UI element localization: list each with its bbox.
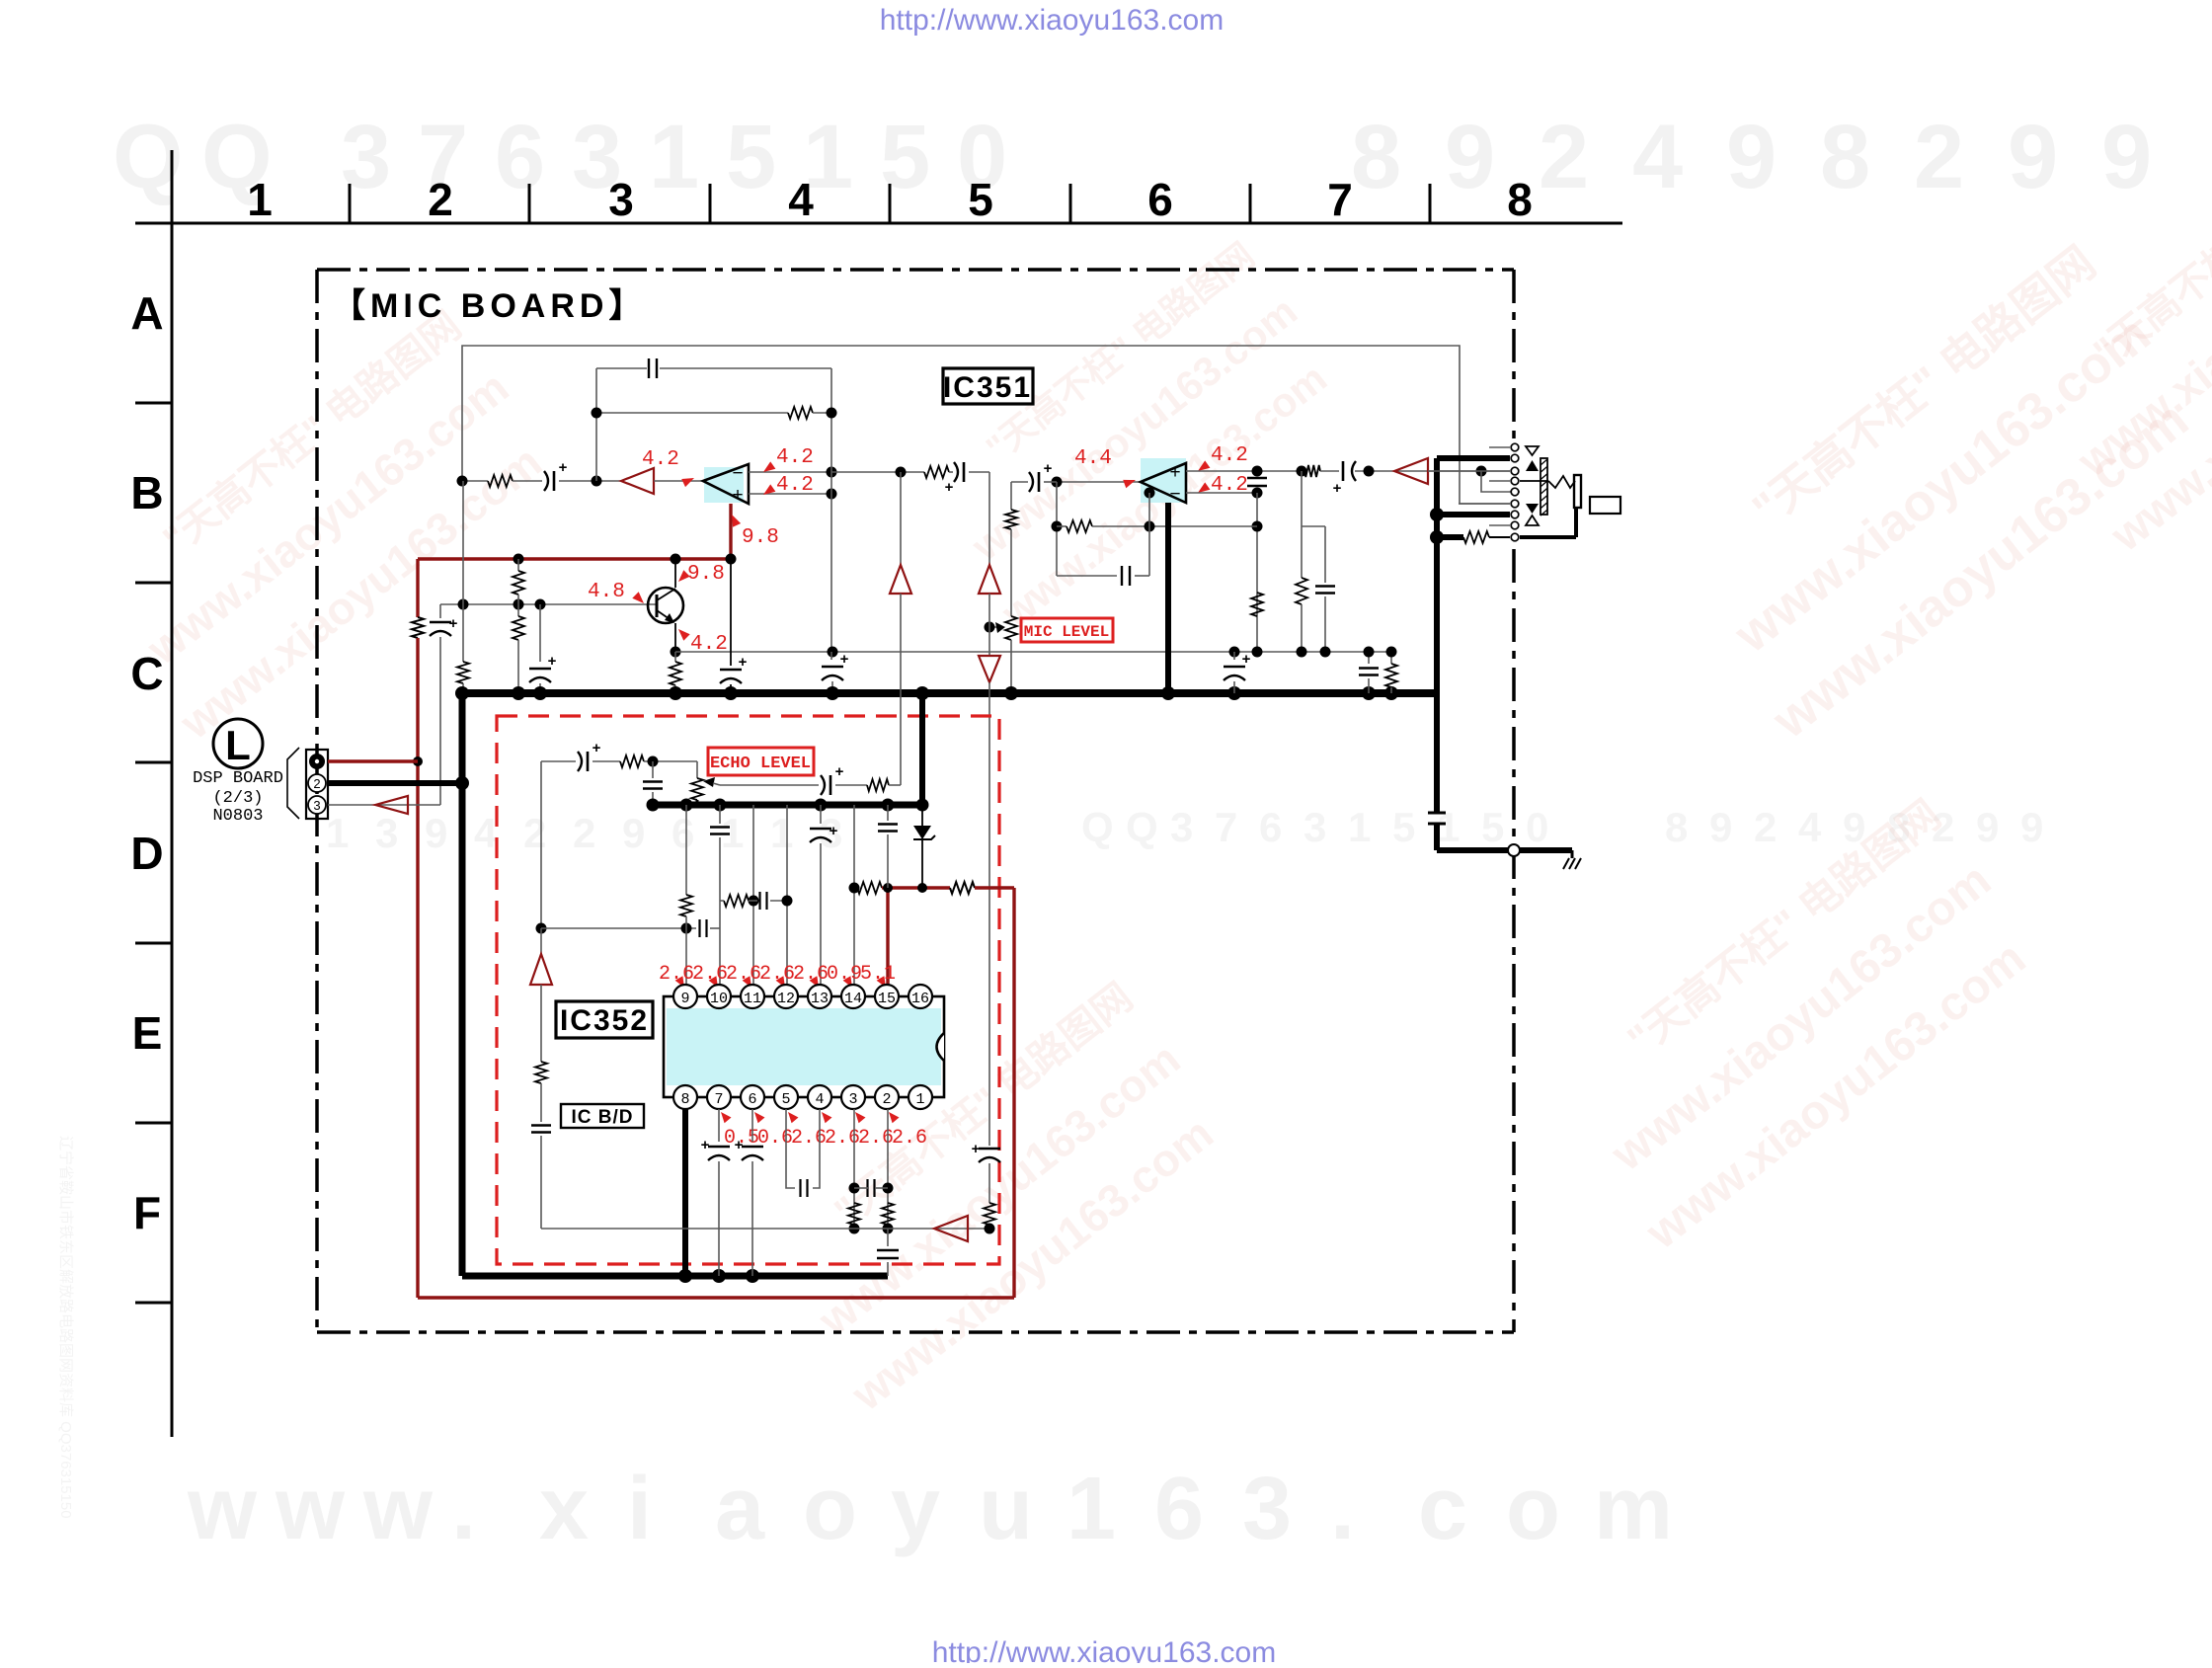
- svg-text:A: A: [130, 287, 163, 339]
- svg-text:Q: Q: [1126, 804, 1158, 850]
- svg-text:12: 12: [777, 991, 795, 1007]
- svg-text:DSP BOARD: DSP BOARD: [193, 769, 283, 788]
- svg-text:15: 15: [878, 991, 896, 1007]
- svg-text:+: +: [1242, 651, 1251, 668]
- svg-text:ECHO LEVEL: ECHO LEVEL: [710, 755, 811, 773]
- svg-text:4: 4: [474, 810, 498, 856]
- svg-text:1: 1: [1348, 804, 1371, 850]
- svg-text:+: +: [548, 653, 557, 670]
- svg-text:5: 5: [968, 174, 993, 225]
- svg-text:2: 2: [313, 776, 320, 791]
- svg-text:2: 2: [573, 810, 595, 856]
- svg-text:o: o: [803, 1460, 857, 1558]
- svg-text:6: 6: [1154, 1460, 1204, 1558]
- svg-text:3: 3: [1242, 1460, 1292, 1558]
- svg-text:MIC LEVEL: MIC LEVEL: [1024, 623, 1109, 641]
- svg-text:4.4: 4.4: [1074, 447, 1112, 470]
- svg-text:16: 16: [911, 991, 929, 1007]
- svg-text:C: C: [130, 648, 163, 699]
- svg-text:8: 8: [1665, 804, 1688, 850]
- svg-text:5.1: 5.1: [860, 963, 896, 986]
- svg-text:+: +: [835, 763, 844, 780]
- svg-text:−: −: [732, 463, 743, 484]
- svg-text:6: 6: [1259, 804, 1282, 850]
- svg-text:辽宁省鞍山市铁东区解放路电路图网资料库 QQ37631515: 辽宁省鞍山市铁东区解放路电路图网资料库 QQ376315150: [57, 1136, 74, 1519]
- svg-text:6: 6: [671, 810, 694, 856]
- svg-text:1: 1: [247, 174, 273, 225]
- svg-text:5: 5: [1392, 804, 1415, 850]
- svg-text:7: 7: [714, 1091, 723, 1108]
- svg-text:−: −: [1169, 484, 1180, 505]
- svg-text:6: 6: [748, 1091, 756, 1108]
- svg-text:1: 1: [770, 810, 793, 856]
- svg-text:2.6: 2.6: [726, 963, 761, 986]
- svg-text:1: 1: [915, 1091, 924, 1108]
- svg-text:+: +: [840, 651, 849, 668]
- svg-text:6: 6: [1147, 174, 1173, 225]
- svg-text:2: 2: [1539, 107, 1589, 207]
- svg-text:【MIC BOARD】: 【MIC BOARD】: [332, 287, 647, 325]
- svg-text:2.6: 2.6: [659, 963, 694, 986]
- svg-text:4.2: 4.2: [776, 446, 814, 469]
- svg-text:1: 1: [1066, 1460, 1116, 1558]
- svg-text:2.6: 2.6: [791, 1127, 827, 1150]
- svg-text:1: 1: [1437, 804, 1460, 850]
- svg-text:9.8: 9.8: [742, 526, 779, 549]
- svg-text:4: 4: [1798, 804, 1822, 850]
- svg-text:c: c: [1418, 1460, 1467, 1558]
- svg-text:u: u: [979, 1460, 1033, 1558]
- svg-text:4: 4: [788, 174, 814, 225]
- svg-text:4.2: 4.2: [776, 474, 814, 497]
- svg-text:i: i: [627, 1460, 652, 1558]
- svg-text:E: E: [132, 1007, 163, 1059]
- svg-text:w: w: [362, 1460, 434, 1558]
- svg-text:4.8: 4.8: [588, 581, 625, 603]
- svg-text:+: +: [1044, 460, 1053, 477]
- svg-text:+: +: [829, 823, 838, 839]
- svg-text:2: 2: [428, 174, 453, 225]
- svg-text:+: +: [732, 485, 743, 506]
- svg-text:+: +: [945, 479, 954, 496]
- svg-text:2: 2: [882, 1091, 891, 1108]
- svg-text:w: w: [275, 1460, 346, 1558]
- svg-text:3: 3: [848, 1091, 857, 1108]
- svg-text:5: 5: [781, 1091, 790, 1108]
- svg-text:0: 0: [1526, 804, 1548, 850]
- svg-text:13: 13: [811, 991, 829, 1007]
- svg-text:4.2: 4.2: [1211, 444, 1248, 467]
- svg-text:+: +: [1333, 480, 1342, 497]
- svg-text:8: 8: [680, 1091, 689, 1108]
- svg-text:4: 4: [1632, 107, 1683, 207]
- svg-text:5: 5: [726, 107, 776, 207]
- svg-text:2: 2: [523, 810, 546, 856]
- svg-text:a: a: [715, 1460, 765, 1558]
- svg-text:.: .: [451, 1460, 476, 1558]
- svg-text:9: 9: [2101, 107, 2152, 207]
- svg-text:3: 3: [608, 174, 634, 225]
- svg-text:+: +: [592, 740, 601, 756]
- svg-text:9: 9: [1709, 804, 1732, 850]
- svg-text:m: m: [1594, 1460, 1673, 1558]
- svg-text:F: F: [133, 1187, 161, 1238]
- svg-text:9: 9: [2020, 804, 2043, 850]
- svg-text:+: +: [559, 459, 568, 476]
- svg-text:Q: Q: [1081, 804, 1114, 850]
- svg-text:1: 1: [649, 107, 699, 207]
- svg-text:9: 9: [1976, 804, 1999, 850]
- svg-text:8: 8: [1507, 174, 1533, 225]
- svg-text:+: +: [972, 1141, 981, 1157]
- svg-text:4.2: 4.2: [642, 448, 679, 471]
- svg-text:IC B/D: IC B/D: [572, 1107, 634, 1128]
- svg-text:D: D: [130, 828, 163, 879]
- svg-text:3: 3: [1303, 804, 1326, 850]
- svg-text:N0803: N0803: [212, 807, 263, 826]
- svg-text:9: 9: [680, 991, 689, 1007]
- svg-text:+: +: [1169, 462, 1180, 483]
- svg-text:9: 9: [2008, 107, 2058, 207]
- svg-text:x: x: [539, 1460, 589, 1558]
- svg-text:(2/3): (2/3): [212, 789, 263, 808]
- svg-text:9: 9: [425, 810, 447, 856]
- svg-text:L: L: [225, 722, 251, 768]
- svg-text:3: 3: [313, 798, 320, 813]
- svg-text:11: 11: [744, 991, 761, 1007]
- svg-text:5: 5: [880, 107, 930, 207]
- svg-text:2.6: 2.6: [793, 963, 829, 986]
- svg-text:8: 8: [1351, 107, 1401, 207]
- svg-text:1: 1: [326, 810, 349, 856]
- svg-text:2.6: 2.6: [759, 963, 795, 986]
- svg-text:IC352: IC352: [560, 1004, 649, 1037]
- svg-text:+: +: [701, 1137, 710, 1153]
- svg-text:2.6: 2.6: [892, 1127, 927, 1150]
- svg-text:9: 9: [1445, 107, 1495, 207]
- svg-text:6: 6: [495, 107, 545, 207]
- svg-text:5: 5: [1481, 804, 1504, 850]
- svg-text:4: 4: [815, 1091, 824, 1108]
- svg-text:8: 8: [1820, 107, 1870, 207]
- svg-text:+: +: [739, 654, 748, 671]
- svg-text:9: 9: [1726, 107, 1777, 207]
- svg-text:3: 3: [375, 810, 398, 856]
- svg-text:2: 2: [1754, 804, 1777, 850]
- svg-text:7: 7: [1327, 174, 1353, 225]
- svg-text:w: w: [187, 1460, 258, 1558]
- svg-text:o: o: [1506, 1460, 1560, 1558]
- svg-text:IC351: IC351: [943, 371, 1032, 404]
- svg-text:http://www.xiaoyu163.com: http://www.xiaoyu163.com: [932, 1636, 1277, 1663]
- svg-text:9: 9: [622, 810, 645, 856]
- svg-text:0.9: 0.9: [827, 963, 862, 986]
- svg-text:14: 14: [844, 991, 862, 1007]
- svg-text:y: y: [891, 1460, 940, 1558]
- svg-text:2.6: 2.6: [692, 963, 728, 986]
- svg-text:3: 3: [1170, 804, 1193, 850]
- svg-text:http://www.xiaoyu163.com: http://www.xiaoyu163.com: [880, 4, 1224, 37]
- svg-text:9.8: 9.8: [687, 563, 725, 586]
- svg-text:B: B: [130, 467, 163, 518]
- svg-text:2: 2: [1914, 107, 1964, 207]
- svg-text:+: +: [735, 1137, 744, 1153]
- svg-text:10: 10: [710, 991, 728, 1007]
- svg-text:.: .: [1330, 1460, 1355, 1558]
- svg-text:+: +: [449, 615, 458, 632]
- svg-text:7: 7: [1215, 804, 1237, 850]
